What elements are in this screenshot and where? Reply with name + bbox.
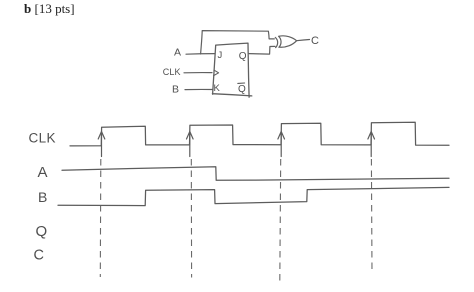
wire XOR output: [297, 40, 310, 41]
svg-text:C: C: [34, 247, 44, 263]
B waveform: [58, 187, 449, 205]
svg-text:Q: Q: [239, 51, 247, 62]
dashed time line t4: [370, 159, 373, 273]
svg-text:K: K: [214, 83, 221, 94]
svg-text:Q: Q: [36, 223, 48, 240]
svg-text:A: A: [174, 47, 181, 59]
svg-text:C: C: [311, 35, 319, 47]
wire A branch to XOR top input: [201, 31, 275, 54]
clock edge arrow t4: [368, 132, 375, 157]
Qbar overline: [238, 82, 245, 84]
svg-text:B: B: [172, 84, 179, 96]
clock edge arrow t1: [98, 132, 105, 157]
svg-text:b [13 pts]: b [13 pts]: [24, 1, 75, 16]
xor gate U2 body: [279, 36, 297, 47]
svg-text:A: A: [38, 164, 48, 181]
clock edge arrow t2: [187, 132, 194, 157]
pin clock triangle: [213, 70, 218, 76]
wire A input: [186, 53, 215, 56]
wire CLK input: [184, 72, 212, 74]
svg-text:CLK: CLK: [163, 67, 181, 77]
dashed time line t2: [190, 159, 192, 278]
A waveform: [62, 167, 449, 181]
wire B input: [185, 88, 213, 90]
svg-text:Q: Q: [238, 84, 246, 95]
dashed time line t1: [99, 159, 102, 277]
CLK waveform: [70, 122, 449, 146]
clock edge arrow t3: [278, 132, 285, 157]
svg-text:J: J: [218, 50, 223, 61]
svg-text:B: B: [38, 189, 47, 205]
dashed time line t3: [279, 159, 282, 281]
xor gate U2 extra input curve: [275, 37, 277, 47]
wire Q output to XOR lower input: [249, 46, 275, 54]
flip-flop U1 body: [212, 43, 251, 97]
svg-text:CLK: CLK: [29, 131, 56, 146]
